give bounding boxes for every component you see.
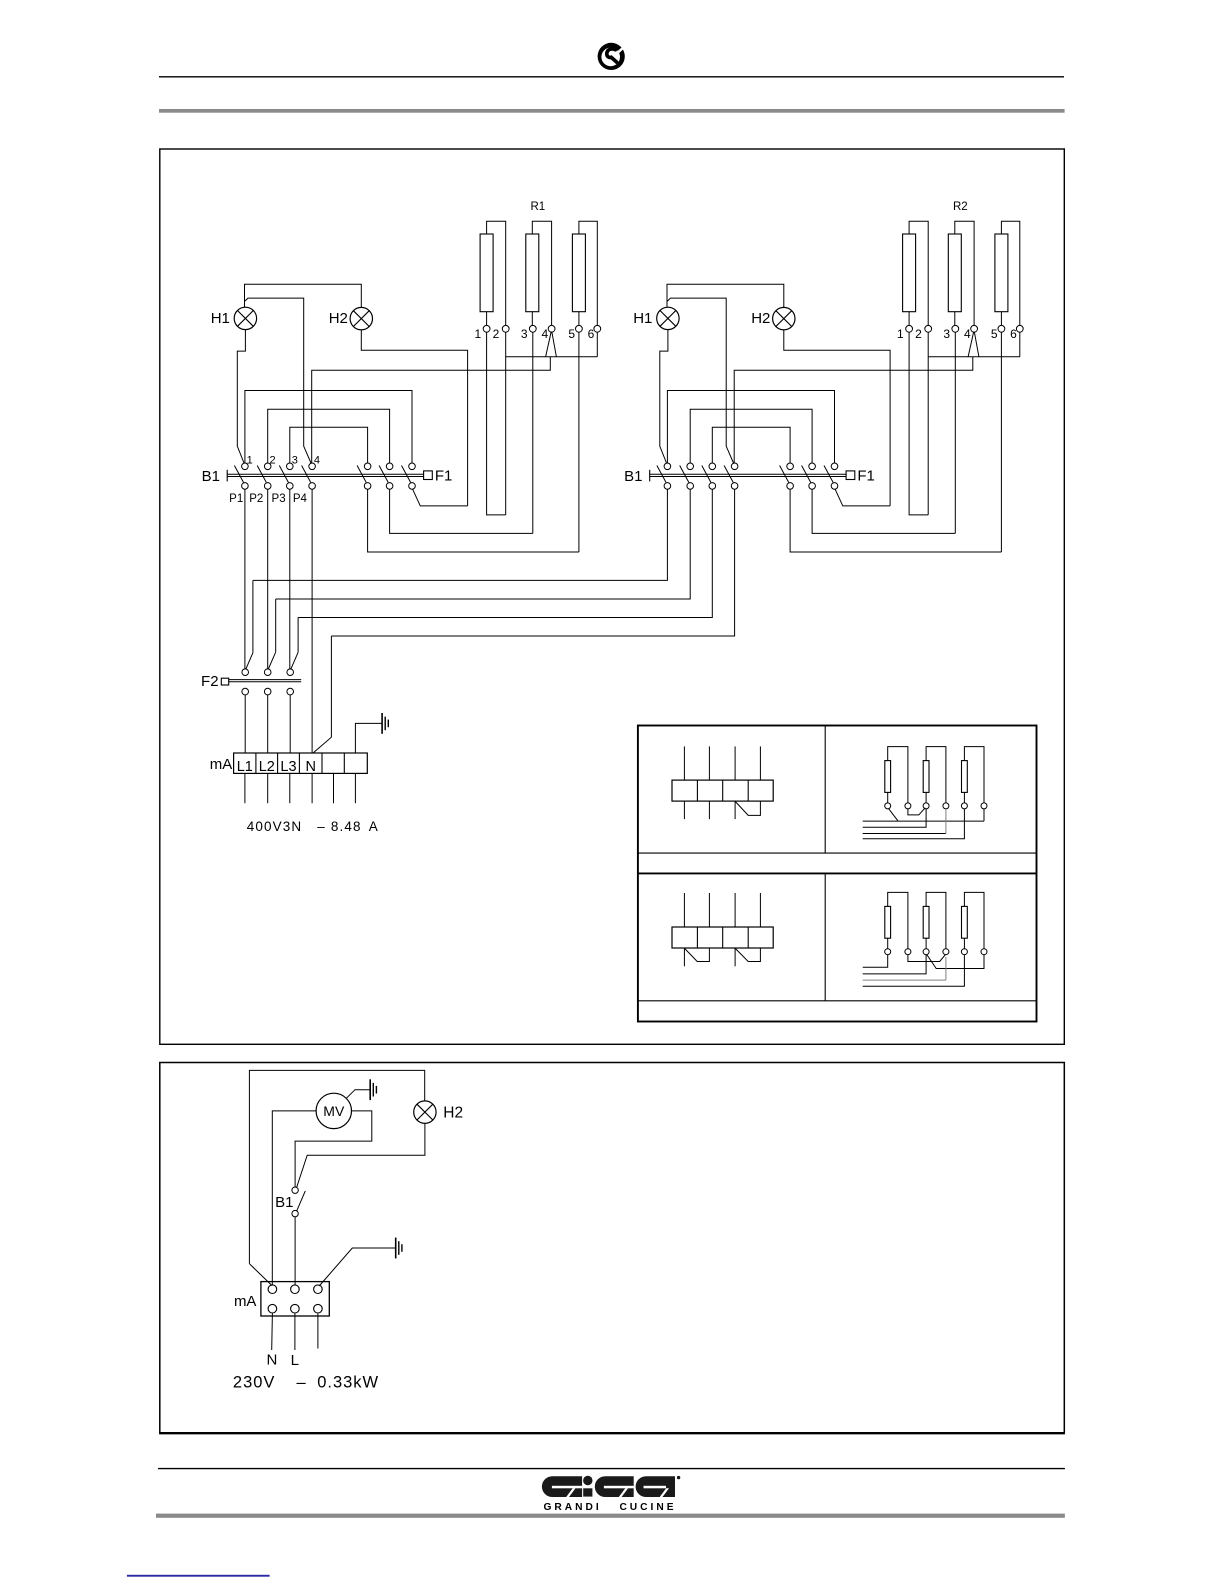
switch pole 4 top contact xyxy=(731,463,738,470)
wire P2 down to F2 pole 2 xyxy=(267,489,269,669)
legend element 3 bottom lead xyxy=(963,792,965,803)
wire resistor 1 bottom xyxy=(486,312,488,326)
switch pole 3 blade xyxy=(279,466,288,483)
legend Q2 terminal1 diagonal xyxy=(889,809,899,822)
svg-text:8.48: 8.48 xyxy=(331,819,362,834)
switch B1 bottom contact (fan) xyxy=(292,1210,298,1216)
svg-text:P2: P2 xyxy=(249,493,263,505)
wire MV right to switch B1 xyxy=(295,1111,372,1187)
legend Q1 top lead 1 xyxy=(683,746,685,780)
svg-text:5: 5 xyxy=(568,327,575,341)
switch pole 6 bottom contact xyxy=(386,483,393,490)
svg-text:mA: mA xyxy=(210,756,233,773)
heating element R1 resistor 3 xyxy=(572,234,585,312)
terminal 5 of R1 xyxy=(576,325,583,332)
thermostat F2 bar xyxy=(229,679,302,681)
wire H1 top to H2 top xyxy=(245,284,362,307)
terminal 4 of R1 xyxy=(548,325,555,332)
switch pole 7 blade xyxy=(402,466,411,483)
svg-text:230V: 230V xyxy=(233,1373,276,1391)
svg-text:L1: L1 xyxy=(237,759,253,775)
svg-text:R1: R1 xyxy=(530,201,545,213)
switch pole 2 bottom contact xyxy=(264,483,271,490)
wire feed 4 down to terminal N xyxy=(313,636,331,753)
switch pole 3 blade xyxy=(702,466,711,483)
legend Q1 jumper 3-4 xyxy=(735,801,760,815)
svg-text:3: 3 xyxy=(521,327,528,341)
legend Q3 jumper 3-4 xyxy=(736,948,761,961)
indicator lamp H2 (R1 circuit) xyxy=(350,307,372,329)
legend terminal 2 xyxy=(905,803,911,809)
terminal 6 of R1 xyxy=(594,325,601,332)
legend element 1 top loop xyxy=(888,892,908,948)
legend Q3 bottom lead 1 xyxy=(683,948,685,966)
wire MV earth xyxy=(346,1090,369,1099)
svg-text:400V3N: 400V3N xyxy=(247,819,302,834)
switch pole 1 blade xyxy=(234,466,243,483)
switch pole 6 bottom contact xyxy=(809,483,816,490)
footer rule xyxy=(158,1468,1065,1470)
svg-text:N: N xyxy=(306,759,316,775)
header logo disc xyxy=(598,43,625,70)
svg-text:GRANDI: GRANDI xyxy=(544,1502,602,1513)
legend Q3 top lead 2 xyxy=(708,893,710,927)
svg-text:3: 3 xyxy=(292,455,298,467)
legend divider vertical lower xyxy=(824,873,826,1000)
switch B1 bar left tick xyxy=(649,470,651,482)
header logo slash xyxy=(607,44,627,63)
wire terminal 6 down to bus xyxy=(596,332,598,357)
V link bus to terminal 4 xyxy=(546,332,557,357)
switch pole 2 top contact xyxy=(264,463,271,470)
bus joining terminals 2-4-6 of R1 xyxy=(506,356,598,358)
switch B1 top contact (fan) xyxy=(292,1187,298,1193)
legend element 3 top loop xyxy=(964,892,984,948)
switch pole 7 top contact xyxy=(831,463,838,470)
legend terminal 4 xyxy=(943,803,949,809)
wire right pole3 bottom to left feed 3 xyxy=(298,489,712,617)
wire right pole1 bottom to left feed 1 xyxy=(253,489,668,580)
wire terminal 6 down to bus xyxy=(1019,332,1021,357)
wire earth terminal xyxy=(355,723,381,753)
switch pole 1 blade xyxy=(657,466,666,483)
header logo e-mark xyxy=(607,49,617,62)
terminal 1 upper (fan) xyxy=(268,1285,277,1294)
legend divider horizontal thin lower xyxy=(638,1000,1037,1002)
F2 pole 1 bottom contact xyxy=(242,688,249,695)
V link bus to terminal 4 xyxy=(968,332,979,357)
diagram box 1 border xyxy=(160,149,1065,1044)
wire resistor 1 top loop xyxy=(487,221,506,325)
wire F2 pole 2 to terminal block xyxy=(267,695,269,753)
terminal 2 of R1 xyxy=(502,325,509,332)
wire H1 top branch to switch contact 4 xyxy=(667,298,734,463)
wire terminal 5 down xyxy=(1000,332,1002,552)
svg-text:MV: MV xyxy=(323,1103,345,1119)
switch pole 5 bottom contact xyxy=(364,483,371,490)
switch pole 3 top contact xyxy=(709,463,716,470)
wire H1 bottom to switch contact 1 xyxy=(660,330,668,464)
switch pole 3 top contact xyxy=(287,463,294,470)
F2 pole 3 top contact xyxy=(287,669,294,676)
wire pole6 bottom to terminal 3 xyxy=(812,489,955,533)
header rule xyxy=(159,76,1064,78)
supply lead 3 xyxy=(289,773,291,803)
switch pole 7 bottom contact xyxy=(831,483,838,490)
svg-text:–: – xyxy=(317,819,326,834)
header gray bar xyxy=(159,109,1065,113)
legend element 2 xyxy=(923,761,929,793)
legend element 1 bottom lead xyxy=(887,938,889,949)
wire terminal 3 down xyxy=(954,332,956,533)
wire left drop to terminal 1 xyxy=(249,1264,272,1286)
terminal block mA box xyxy=(234,753,368,773)
switch pole 2 blade xyxy=(680,466,689,483)
supply lead 6 xyxy=(354,773,356,803)
wire feed 2 down to F2 blade 2 xyxy=(275,599,277,652)
legend element 3 bottom lead xyxy=(963,938,965,949)
switch pole 4 top contact xyxy=(309,463,316,470)
legend Q2 wire c (gray) xyxy=(863,833,946,835)
svg-text:CUCINE: CUCINE xyxy=(619,1502,676,1513)
legend Q1 top lead 3 xyxy=(734,746,736,780)
wire resistor 2 top loop xyxy=(955,221,974,325)
legend element 1 bottom lead xyxy=(887,792,889,803)
svg-text:2: 2 xyxy=(493,327,500,341)
legend Q1 terminal strip xyxy=(672,780,773,801)
svg-text:B1: B1 xyxy=(202,468,220,485)
svg-text:2: 2 xyxy=(270,455,276,467)
switch pole 4 blade xyxy=(724,466,733,483)
wire pole7 bottom to H2 drop xyxy=(835,489,890,506)
wire link contact1-contact7 tops xyxy=(667,391,834,464)
bus joining terminals 2-4-6 of R2 xyxy=(928,356,1020,358)
terminal 3 of R2 xyxy=(952,325,959,332)
wire B1 to terminal 2 xyxy=(294,1217,296,1285)
svg-text:1: 1 xyxy=(897,327,904,341)
wire link contact3-contact5 tops xyxy=(712,427,790,463)
wire resistor 3 top loop xyxy=(1001,221,1019,325)
switch pole 2 blade xyxy=(257,466,266,483)
switch B1 blade (fan) xyxy=(297,1191,306,1211)
terminal 1 of R1 xyxy=(483,325,490,332)
legend Q3 jumper 1-2 xyxy=(685,948,710,961)
legend element 3 xyxy=(962,906,968,938)
switch pole 5 blade xyxy=(357,466,366,483)
svg-text:B1: B1 xyxy=(275,1194,293,1211)
legend Q3 top lead 3 xyxy=(734,893,736,927)
legend Q1 bottom lead 2 xyxy=(708,801,710,819)
wire pole6 bottom to terminal 3 xyxy=(390,489,533,533)
switch pole 7 bottom contact xyxy=(409,483,416,490)
supply lead L xyxy=(294,1313,296,1350)
switch pole 3 bottom contact xyxy=(287,483,294,490)
legend element 1 xyxy=(885,761,891,793)
wire terminal 5 down xyxy=(578,332,580,552)
F2 pole 1 top contact xyxy=(242,669,249,676)
svg-text:1: 1 xyxy=(247,455,253,467)
header logo inner counter xyxy=(601,48,620,67)
wire bus to switch contact 4 top xyxy=(312,357,551,463)
legend terminal 6 xyxy=(981,949,987,955)
terminal 3 lower (fan) xyxy=(314,1304,323,1313)
legend element 2 top loop xyxy=(926,747,946,803)
svg-text:H1: H1 xyxy=(633,310,652,327)
wire H1 bottom to switch contact 1 xyxy=(237,330,245,464)
svg-text:–: – xyxy=(297,1373,307,1391)
lamp H2 (fan circuit) xyxy=(414,1101,436,1123)
legend Q2 wire d xyxy=(863,809,965,839)
legend element 1 xyxy=(885,906,891,938)
wire link contact3-contact5 tops xyxy=(290,427,368,463)
svg-text:N: N xyxy=(266,1352,277,1369)
legend Q4 wire a xyxy=(863,955,888,968)
legend Q2 wire b xyxy=(863,809,926,827)
svg-text:4: 4 xyxy=(542,327,549,341)
switch pole 1 top contact xyxy=(664,463,671,470)
supply lead 5 xyxy=(333,773,335,803)
wire terminal 1 down xyxy=(487,332,506,515)
switch pole 1 bottom contact xyxy=(664,483,671,490)
legend Q2 terminal6 drop xyxy=(983,809,985,821)
svg-text:H2: H2 xyxy=(443,1105,463,1122)
wire feed 3 down to F2 blade 3 xyxy=(297,618,299,653)
svg-text:R2: R2 xyxy=(953,201,968,213)
switch pole 2 top contact xyxy=(687,463,694,470)
logo giga glyph g1 slit xyxy=(552,1486,582,1489)
svg-text:P3: P3 xyxy=(272,493,286,505)
switch pole 3 bottom contact xyxy=(709,483,716,490)
wire terminal 2 down to bus xyxy=(927,332,929,515)
legend Q4 wire d xyxy=(863,955,965,987)
wire pole5 bottom to terminal 5 xyxy=(790,489,1001,552)
indicator lamp H1 (R2 circuit) xyxy=(657,307,679,329)
switch pole 6 blade xyxy=(802,466,811,483)
legend element 2 xyxy=(923,906,929,938)
legend Q4 terminal3 diagonal to 6 xyxy=(927,955,984,969)
wire F2 pole 1 to terminal block xyxy=(244,695,246,753)
F2 pole 3 blade xyxy=(291,652,298,669)
wire link contact2-contact6 tops xyxy=(268,409,390,463)
switch pole 6 top contact xyxy=(386,463,393,470)
wire bus to switch contact 4 top xyxy=(734,357,973,463)
supply lead N xyxy=(271,1313,274,1350)
switch pole 1 top contact xyxy=(242,463,249,470)
heating element R2 resistor 3 xyxy=(995,234,1008,312)
switch pole 4 bottom contact xyxy=(731,483,738,490)
legend Q3 bottom lead 3 xyxy=(734,948,736,966)
terminal 2 of R2 xyxy=(925,325,932,332)
wire resistor 3 bottom xyxy=(578,312,580,326)
terminal block divider 3 xyxy=(298,753,300,773)
F2 pole 1 blade xyxy=(246,652,253,669)
svg-text:6: 6 xyxy=(1010,327,1017,341)
wire P3 down to F2 pole 3 xyxy=(289,489,291,669)
svg-text:L2: L2 xyxy=(259,759,275,775)
legend Q4 link 2-4 xyxy=(908,955,945,962)
legend terminal 3 xyxy=(923,949,929,955)
legend Q1 top lead 2 xyxy=(708,746,710,780)
svg-text:5: 5 xyxy=(991,327,998,341)
terminal 6 of R2 xyxy=(1016,325,1023,332)
wire terminal 3 down xyxy=(532,332,534,533)
wire H2 bottom down-right xyxy=(784,330,890,506)
legend terminal 1 xyxy=(885,949,891,955)
terminal 1 of R2 xyxy=(906,325,913,332)
wire link contact1-contact7 tops xyxy=(245,391,412,464)
svg-text:0.33kW: 0.33kW xyxy=(317,1373,379,1391)
legend Q1 bottom lead 3 xyxy=(734,801,736,819)
legend terminal 5 xyxy=(961,803,967,809)
svg-text:3: 3 xyxy=(943,327,950,341)
earth symbol (box1) xyxy=(381,713,383,734)
terminal block divider 4 xyxy=(321,753,323,773)
svg-text:6: 6 xyxy=(588,327,595,341)
logo giga glyph i stem xyxy=(583,1488,592,1496)
wire pole7 bottom to H2 drop xyxy=(413,489,468,506)
terminal block mA box (fan) xyxy=(261,1282,329,1316)
motor MV xyxy=(316,1093,351,1128)
legend Q1 bottom lead 1 xyxy=(683,801,685,819)
legend divider horizontal thin upper xyxy=(638,852,1037,854)
wire feed 1 down to F2 blade 1 xyxy=(252,580,254,652)
wire H1 top branch to switch contact 4 xyxy=(245,298,312,463)
wire top loop to lamp H2 xyxy=(249,1070,424,1263)
switch pole 5 top contact xyxy=(787,463,794,470)
legend terminal 3 xyxy=(923,803,929,809)
terminal 2 upper (fan) xyxy=(291,1285,300,1294)
svg-text:P1: P1 xyxy=(229,493,243,505)
legend Q4 wire b xyxy=(863,955,926,974)
svg-text:L3: L3 xyxy=(280,759,296,775)
legend element 3 top loop xyxy=(964,747,984,803)
switch pole 7 blade xyxy=(824,466,833,483)
heating element R2 resistor 1 xyxy=(903,234,916,312)
legend Q1 top lead 4 xyxy=(759,746,761,780)
legend terminal 5 xyxy=(961,949,967,955)
wire resistor 3 bottom xyxy=(1000,312,1002,326)
legend element 2 bottom lead xyxy=(925,792,927,803)
fuse link F1 (R1 circuit) xyxy=(424,471,433,480)
earth symbol (supply) xyxy=(395,1238,397,1259)
switch pole 6 blade xyxy=(379,466,388,483)
wire pole5 bottom to terminal 5 xyxy=(368,489,579,552)
svg-text:L: L xyxy=(291,1352,299,1369)
svg-text:F1: F1 xyxy=(857,468,875,485)
wire terminal 2 down to bus xyxy=(505,332,507,515)
svg-text:F1: F1 xyxy=(435,468,453,485)
svg-text:H2: H2 xyxy=(751,310,770,327)
svg-text:2: 2 xyxy=(915,327,922,341)
logo giga glyph i dot xyxy=(583,1476,592,1485)
F2 pole 2 blade xyxy=(268,652,275,669)
terminal 3 upper (fan) xyxy=(314,1285,323,1294)
svg-text:A: A xyxy=(369,819,379,834)
logo giga glyph a slit xyxy=(644,1486,667,1489)
terminal block divider 5 xyxy=(343,753,345,773)
logo registered mark xyxy=(677,1476,680,1479)
wire H2 bottom to switch B1 xyxy=(297,1123,425,1187)
logo giga glyph g2 xyxy=(595,1476,634,1497)
legend divider vertical upper xyxy=(824,726,826,854)
switch pole 1 bottom contact xyxy=(242,483,249,490)
heating element R1 resistor 2 xyxy=(526,234,539,312)
legend Q4 wire c (gray) xyxy=(863,979,946,981)
legend Q2 link 2-3 xyxy=(908,808,925,815)
svg-text:H1: H1 xyxy=(211,310,230,327)
legend element 2 bottom lead xyxy=(925,938,927,949)
switch pole 6 top contact xyxy=(809,463,816,470)
thermostat F2 actuator square xyxy=(221,678,228,685)
wire terminal 3 to earth xyxy=(319,1248,395,1286)
switch B1 bar left tick xyxy=(226,470,228,482)
legend terminal 1 xyxy=(885,803,891,809)
wire P1 down to F2 pole 1 xyxy=(244,489,246,669)
heating element R1 resistor 1 xyxy=(480,234,493,312)
legend Q3 top lead 4 xyxy=(759,893,761,927)
indicator lamp H1 (R1 circuit) xyxy=(234,307,256,329)
wire H1 top to H2 top xyxy=(667,284,784,307)
wire right pole2 bottom to left feed 2 xyxy=(276,489,691,599)
wire terminal 1 down xyxy=(909,332,928,515)
heating element R2 resistor 2 xyxy=(948,234,961,312)
legend element 1 top loop xyxy=(888,747,908,803)
wire resistor 2 bottom xyxy=(954,312,956,326)
svg-text:1: 1 xyxy=(475,327,482,341)
switch pole 5 bottom contact xyxy=(787,483,794,490)
supply lead 2 xyxy=(267,773,269,803)
svg-text:F2: F2 xyxy=(201,673,219,690)
switch pole 5 blade xyxy=(780,466,789,483)
terminal 5 of R2 xyxy=(998,325,1005,332)
wire F2 pole 3 to terminal block xyxy=(289,695,291,753)
supply lead 4 xyxy=(311,773,313,803)
supply lead earth xyxy=(317,1313,319,1349)
legend terminal 4 xyxy=(943,949,949,955)
legend terminal 2 xyxy=(905,949,911,955)
indicator lamp H2 (R2 circuit) xyxy=(773,307,795,329)
switch pole 4 bottom contact xyxy=(309,483,316,490)
logo giga glyph g2 slit xyxy=(604,1486,634,1489)
earth symbol (motor) xyxy=(369,1079,371,1100)
switch pole 2 bottom contact xyxy=(687,483,694,490)
terminal 1 lower (fan) xyxy=(268,1304,277,1313)
switch pole 4 blade xyxy=(302,466,311,483)
diagram box 2 bottom edge xyxy=(159,1432,1065,1434)
wire link contact2-contact6 tops xyxy=(690,409,812,463)
wire resistor 2 top loop xyxy=(532,221,551,325)
footer blue mark xyxy=(127,1575,270,1577)
F2 pole 2 top contact xyxy=(264,669,271,676)
svg-text:mA: mA xyxy=(234,1293,257,1310)
legend Q3 top lead 1 xyxy=(683,893,685,927)
wire right pole4 bottom to left feed 4 xyxy=(331,489,734,636)
svg-text:P4: P4 xyxy=(293,493,308,505)
svg-text:H2: H2 xyxy=(329,310,348,327)
F2 pole 3 bottom contact xyxy=(287,688,294,695)
wire H2 bottom down-right xyxy=(361,330,467,506)
F2 pole 2 bottom contact xyxy=(264,688,271,695)
switch pole 7 top contact xyxy=(409,463,416,470)
svg-text:4: 4 xyxy=(964,327,971,341)
legend divider horizontal thick xyxy=(638,872,1037,874)
terminal 3 of R1 xyxy=(529,325,536,332)
supply lead 1 xyxy=(244,773,246,803)
terminal 2 lower (fan) xyxy=(291,1304,300,1313)
legend Q2 wire a xyxy=(863,820,984,822)
wire MV left to terminal 1 xyxy=(272,1111,316,1285)
legend box border xyxy=(638,726,1037,1022)
